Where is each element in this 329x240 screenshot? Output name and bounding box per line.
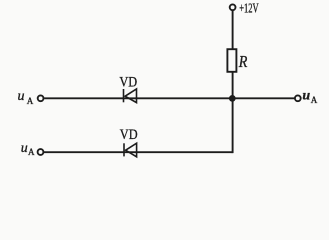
label uA lower-left input — [21, 141, 35, 157]
terminal input uA lower (circle) — [38, 149, 44, 155]
resistor R (rectangle body) — [227, 49, 236, 72]
label uA upper-left input — [18, 89, 34, 106]
svg-text:u: u — [302, 88, 310, 103]
terminal +12V (circle) — [230, 4, 236, 10]
svg-text:R: R — [238, 52, 248, 71]
node: junction of resistor, upper rail and lower branch — [229, 95, 236, 102]
wire: +12V terminal down to resistor R — [232, 11, 234, 50]
label R (resistor value) — [238, 52, 248, 71]
terminal input uA upper (circle) — [38, 95, 44, 101]
svg-text:A: A — [311, 95, 318, 105]
svg-text:A: A — [28, 147, 35, 157]
svg-text:VD: VD — [120, 127, 138, 143]
svg-text:A: A — [27, 96, 34, 106]
diode VD upper: triangle (anode, pointing left) — [125, 89, 136, 103]
label uA output (right) — [302, 88, 317, 105]
label +12V — [239, 1, 259, 16]
diode VD lower: triangle (anode, pointing left) — [126, 143, 137, 157]
svg-text:+12V: +12V — [239, 1, 259, 16]
diode VD lower: cathode bar — [123, 143, 125, 156]
label VD lower diode — [120, 127, 138, 143]
svg-text:u: u — [18, 89, 25, 104]
svg-text:u: u — [21, 141, 28, 156]
terminal output uA (circle) — [295, 95, 301, 101]
label VD upper diode — [119, 74, 137, 90]
wire: resistor R down through junction to lower-rail corner — [232, 72, 234, 153]
wire: upper rail from left input to output — [44, 97, 294, 99]
svg-text:VD: VD — [119, 74, 137, 90]
diode VD upper: cathode bar — [123, 89, 125, 102]
wire: lower rail from left input to corner — [44, 151, 233, 153]
